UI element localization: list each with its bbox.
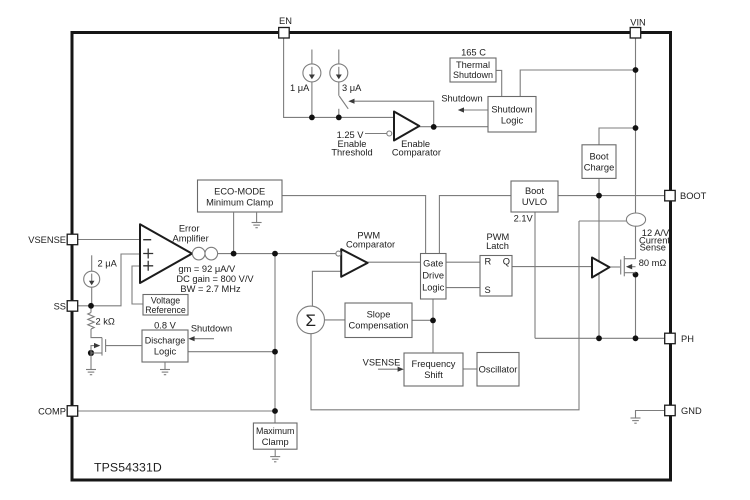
junction 1uA on EN rail	[309, 115, 315, 121]
wire 2uA source to SS node	[91, 287, 93, 306]
wire switch control from enable comparator output	[350, 101, 434, 127]
svg-text:Σ: Σ	[305, 311, 316, 330]
wire VIN tap to boot charge	[599, 128, 636, 145]
junction 3uA on EN rail	[336, 115, 342, 121]
block Gate Drive Logic	[421, 254, 447, 300]
svg-text:ECO-MODE: ECO-MODE	[214, 187, 265, 197]
wire COMP node vertical to maximum clamp	[274, 254, 276, 423]
pin VSENSE	[67, 234, 78, 245]
wire error amplifier output to PWM comparator	[218, 253, 336, 255]
svg-text:165 C: 165 C	[461, 47, 486, 57]
wire EN pin to current-source rail	[284, 38, 394, 117]
svg-text:80 mΩ: 80 mΩ	[639, 258, 667, 268]
svg-text:Clamp: Clamp	[262, 437, 289, 447]
svg-text:R: R	[485, 256, 492, 266]
arrowhead shutdown signal	[458, 107, 464, 112]
svg-text:DC gain = 800 V/V: DC gain = 800 V/V	[176, 274, 254, 284]
svg-text:VIN: VIN	[630, 18, 646, 28]
wire gate drive logic to frequency shift	[432, 299, 434, 353]
block PWM Latch	[480, 256, 512, 297]
pin COMP	[67, 406, 78, 417]
wire VIN node to shutdown logic (UVLO)	[520, 70, 635, 97]
wire VIN pin down to VIN node	[635, 38, 637, 70]
block Frequency Shift	[404, 353, 463, 386]
wire thermal shutdown to shutdown logic	[496, 70, 502, 96]
wire shutdown arrow into discharge logic	[190, 338, 214, 340]
wire current sense to summer (bottom rail)	[311, 221, 579, 410]
buffer U4 gate driver	[592, 258, 610, 278]
pin VIN	[630, 28, 641, 39]
arrowhead discharge logic shutdown	[188, 336, 194, 341]
current source I3 2uA	[84, 271, 100, 287]
ground below discharge logic	[160, 362, 170, 375]
svg-text:Boot: Boot	[589, 151, 609, 161]
block Maximum Clamp	[253, 423, 297, 449]
block Voltage Reference	[143, 295, 188, 316]
junction discharge logic output	[272, 349, 278, 355]
svg-text:Comparator: Comparator	[392, 147, 441, 157]
svg-text:Logic: Logic	[422, 283, 445, 293]
pin BOOT	[665, 190, 676, 201]
block ECO-MODE Minimum Clamp	[198, 180, 283, 212]
svg-text:Slope: Slope	[367, 309, 391, 319]
svg-text:Compensation: Compensation	[349, 320, 409, 330]
ground below discharge FET	[86, 353, 96, 375]
transistor Q2 discharge FET	[91, 338, 142, 356]
op-amp U1 error amplifier	[140, 224, 192, 283]
wire gate drive logic to latch S	[446, 287, 480, 289]
block Slope Compensation	[345, 303, 412, 338]
svg-text:Shutdown: Shutdown	[441, 93, 482, 103]
svg-text:Amplifier: Amplifier	[173, 234, 209, 244]
wire 3uA source to switch	[338, 82, 340, 96]
wire 3uA source top stub	[338, 50, 340, 65]
wire current sense to power FET drain	[635, 226, 637, 259]
svg-text:2.1V: 2.1V	[514, 214, 534, 224]
wire SS node to resistor	[90, 306, 92, 313]
svg-text:Error: Error	[179, 223, 200, 233]
svg-text:VSENSE: VSENSE	[28, 235, 66, 245]
svg-text:Gate: Gate	[423, 259, 443, 269]
wire enable comparator output to shutdown logic	[419, 126, 488, 128]
wire current sense ellipse tap	[579, 220, 627, 222]
svg-text:Logic: Logic	[154, 346, 177, 356]
svg-text:UVLO: UVLO	[522, 197, 547, 207]
resistor R1 2kohm	[88, 313, 94, 330]
current sense element	[626, 213, 645, 226]
ground below maximum clamp	[270, 449, 280, 462]
wire latch Q to driver	[512, 266, 592, 268]
svg-text:SS: SS	[54, 302, 66, 312]
svg-text:TPS54331D: TPS54331D	[94, 460, 162, 474]
wire voltage reference to error amplifier plus input	[132, 266, 143, 304]
svg-text:GND: GND	[681, 406, 702, 416]
wire VIN node down to current sense	[635, 70, 637, 213]
block Oscillator	[477, 353, 519, 387]
arrowhead switch control	[348, 99, 354, 104]
svg-text:3 μA: 3 μA	[342, 83, 362, 93]
wire boot UVLO to gate drive logic	[439, 196, 511, 254]
svg-text:Logic: Logic	[501, 115, 524, 125]
block Boot Charge	[582, 145, 616, 179]
comparator U2 enable comparator	[387, 112, 420, 141]
error amplifier gm output circles	[192, 247, 217, 260]
wire summer to slope compensation	[325, 319, 345, 321]
device border TPS54331D	[72, 33, 671, 481]
svg-text:EN: EN	[279, 16, 292, 26]
block Shutdown Logic	[488, 97, 536, 133]
pin EN	[279, 28, 290, 39]
svg-text:Comparator: Comparator	[346, 239, 395, 249]
wire boot charge to BOOT rail	[598, 178, 600, 195]
wire 1uA source to rail	[311, 82, 313, 118]
wire discharge logic output to COMP node	[188, 351, 275, 353]
pin PH	[665, 333, 676, 344]
wire ECO-MODE clamp to gate drive logic	[282, 196, 426, 254]
wire power FET source to PH rail	[635, 273, 637, 339]
svg-text:Discharge: Discharge	[145, 335, 186, 345]
svg-text:Shutdown: Shutdown	[191, 323, 232, 333]
svg-text:Shutdown: Shutdown	[491, 104, 532, 114]
svg-text:Threshold: Threshold	[331, 147, 372, 157]
wire ECO-MODE clamp down to COMP node	[233, 213, 235, 254]
svg-text:Shift: Shift	[424, 370, 443, 380]
wire 2uA source top stub	[91, 255, 93, 271]
wire boot UVLO bottom to PH rail	[534, 212, 536, 338]
wire PWM comparator output to PWM latch R	[368, 261, 480, 263]
junction COMP pin node	[272, 408, 278, 414]
block Discharge Logic	[142, 330, 188, 362]
arrowhead VSENSE into frequency shift	[398, 367, 404, 372]
junction boot charge tap	[633, 125, 639, 131]
wire PH rail	[535, 337, 665, 339]
wire frequency shift to oscillator	[463, 368, 477, 370]
junction error amp output	[272, 251, 278, 257]
junction power FET source	[633, 272, 639, 278]
wire COMP pin to COMP node	[78, 410, 276, 412]
svg-text:1 μA: 1 μA	[290, 83, 310, 93]
switch S1 bottom contact	[338, 109, 340, 118]
wire shutdown signal arrow from shutdown logic	[460, 109, 489, 111]
svg-text:S: S	[485, 285, 491, 295]
wire BOOT rail	[558, 195, 665, 197]
pin SS	[67, 301, 78, 312]
svg-text:gm = 92 μA/V: gm = 92 μA/V	[178, 264, 236, 274]
wire resistor to discharge FET drain	[91, 329, 102, 338]
junction discharge FET source	[88, 350, 94, 356]
current source I2 3uA	[330, 64, 348, 82]
svg-text:Latch: Latch	[486, 241, 509, 251]
wire slope compensation to gate drive node	[412, 319, 433, 321]
wire VSENSE pin to error amplifier inverting input	[78, 239, 141, 241]
junction enable comparator output	[431, 124, 437, 130]
svg-text:2 kΩ: 2 kΩ	[96, 317, 115, 327]
svg-text:PH: PH	[681, 334, 694, 344]
wire GND pin to ground	[636, 411, 666, 419]
svg-text:Drive: Drive	[422, 271, 444, 281]
summer sigma block	[297, 306, 325, 334]
wire driver output to power FET gate	[610, 266, 621, 268]
block Boot UVLO	[511, 181, 558, 212]
junction VIN node	[633, 67, 639, 73]
svg-text:Boot: Boot	[525, 186, 545, 196]
junction BOOT rail at driver	[596, 193, 602, 199]
wire BOOT to driver (node at x599) down to PH rail	[598, 196, 600, 339]
block Thermal Shutdown	[450, 58, 496, 82]
svg-text:Frequency: Frequency	[412, 359, 456, 369]
svg-text:BW = 2.7 MHz: BW = 2.7 MHz	[180, 284, 241, 294]
svg-text:Q: Q	[503, 256, 510, 266]
svg-text:Charge: Charge	[584, 162, 615, 172]
wire VSENSE arrow into frequency shift	[378, 368, 402, 370]
pin GND	[665, 405, 676, 416]
wire summer to PWM comparator input	[312, 271, 341, 306]
svg-text:Oscillator: Oscillator	[479, 364, 518, 374]
switch S1 blade	[339, 96, 348, 109]
svg-text:COMP: COMP	[38, 407, 66, 417]
svg-text:Sense: Sense	[640, 243, 666, 253]
svg-text:Maximum: Maximum	[256, 426, 294, 436]
junction PH rail at FET	[633, 335, 639, 341]
svg-text:0.8 V: 0.8 V	[154, 320, 177, 330]
comparator U3 PWM comparator	[336, 249, 368, 277]
wire 1uA source top stub	[311, 50, 313, 65]
junction slope compensation output	[430, 318, 436, 324]
svg-text:Shutdown: Shutdown	[453, 70, 493, 80]
svg-text:Reference: Reference	[145, 305, 186, 315]
svg-text:2 μA: 2 μA	[98, 259, 118, 269]
junction ECO-MODE at COMP node	[231, 251, 237, 257]
ground at GND pin	[631, 418, 641, 423]
transistor Q1 power FET	[621, 256, 636, 276]
svg-text:Minimum Clamp: Minimum Clamp	[206, 198, 273, 208]
svg-text:BOOT: BOOT	[680, 191, 707, 201]
current source I1 1uA	[303, 64, 321, 82]
svg-text:VSENSE: VSENSE	[363, 357, 401, 367]
wire SS node to error amplifier plus input	[78, 254, 141, 306]
svg-text:Thermal: Thermal	[456, 60, 490, 70]
wire 1.25V threshold to comparator bubble	[365, 133, 387, 135]
junction SS node	[88, 303, 94, 309]
junction PH rail at driver	[596, 335, 602, 341]
ground below ECO-MODE clamp	[252, 213, 262, 228]
